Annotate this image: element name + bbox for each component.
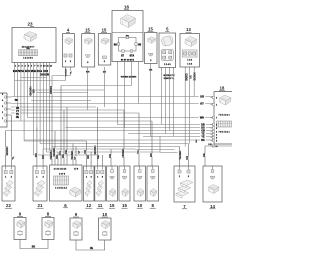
svg-text:22: 22 xyxy=(6,203,11,208)
svg-text:16: 16 xyxy=(124,5,130,10)
wires from relay 16 xyxy=(118,62,139,79)
svg-text:GY: GY xyxy=(200,102,204,106)
svg-text:RE: RE xyxy=(16,117,20,119)
svg-text:1 2 3: 1 2 3 xyxy=(187,59,193,61)
svg-text:DB/WH: DB/WH xyxy=(51,86,53,94)
svg-text:15: 15 xyxy=(102,28,107,33)
lamp 15 (d) xyxy=(107,166,118,208)
svg-text:15: 15 xyxy=(85,28,90,33)
svg-text:DB: DB xyxy=(108,154,112,158)
relay 16 xyxy=(112,5,143,62)
wire from 15 (b) xyxy=(103,72,107,74)
headlamp 10 (right pair) xyxy=(99,212,112,240)
svg-text:YL: YL xyxy=(11,156,15,160)
svg-text:RD/WH: RD/WH xyxy=(93,145,97,154)
svg-text:86 87 30 87A: 86 87 30 87A xyxy=(121,58,135,61)
ground wire right pair xyxy=(76,240,105,250)
connector 15 (b) xyxy=(98,28,111,65)
connector 13 xyxy=(180,27,200,67)
svg-text:YH: YH xyxy=(16,114,20,116)
svg-text:15: 15 xyxy=(122,203,127,208)
wires from connector 13 xyxy=(185,67,194,71)
svg-text:BK: BK xyxy=(15,99,19,102)
lamp 10 xyxy=(134,166,146,208)
svg-text:DB: DB xyxy=(64,150,68,154)
wire labels at connector 18 xyxy=(199,95,212,146)
svg-text:RE: RE xyxy=(96,155,100,159)
svg-text:VA: VA xyxy=(136,150,140,154)
svg-text:WH/BK DB/WH: WH/BK DB/WH xyxy=(121,77,137,79)
connector 4 xyxy=(62,28,74,67)
svg-text:87A: 87A xyxy=(130,54,135,57)
svg-text:10: 10 xyxy=(102,212,107,217)
connector 15 (c) xyxy=(145,27,158,64)
headlamp 9 (right) xyxy=(70,212,82,240)
svg-text:OR: OR xyxy=(185,156,189,160)
svg-text:85: 85 xyxy=(138,42,142,46)
svg-text:21: 21 xyxy=(38,203,43,208)
connector 18 xyxy=(214,86,232,144)
svg-text:RD: RD xyxy=(41,155,45,159)
svg-text:BK: BK xyxy=(201,139,205,142)
svg-text:1 1 13 14 A 2: 1 1 13 14 A 2 xyxy=(55,187,68,190)
wire colour labels under 23 xyxy=(13,69,49,77)
connector 18 pins xyxy=(211,96,219,148)
wires from connector 5 xyxy=(162,68,175,81)
headlamp 8 (left pair) xyxy=(42,212,54,240)
ground wire left pair xyxy=(20,240,48,249)
svg-text:1 2 4 5: 1 2 4 5 xyxy=(164,63,171,66)
svg-text:11: 11 xyxy=(98,203,103,208)
control unit 6 xyxy=(50,165,83,208)
relay 16 pinout xyxy=(114,34,142,62)
svg-text:WH/BK: WH/BK xyxy=(52,147,56,156)
switch 11 xyxy=(95,166,106,208)
svg-text:VT: VT xyxy=(73,156,77,160)
svg-text:RD: RD xyxy=(86,155,90,159)
svg-text:BK/RD: BK/RD xyxy=(187,73,189,81)
wire mesh verticals from top row xyxy=(15,66,195,158)
svg-text:DB: DB xyxy=(16,108,20,110)
svg-text:BK/WH: BK/WH xyxy=(195,72,197,80)
connector 23 xyxy=(12,22,56,63)
svg-text:HW/BK: HW/BK xyxy=(121,148,125,157)
left wire labels xyxy=(13,98,20,119)
wire from 15 (c) xyxy=(149,64,153,72)
wire from 15 (a) xyxy=(86,72,90,74)
svg-text:WH: WH xyxy=(34,153,38,157)
svg-text:BK: BK xyxy=(149,153,153,157)
lamp 8 xyxy=(147,166,159,208)
switch 12 xyxy=(84,166,95,208)
svg-text:10: 10 xyxy=(137,203,142,208)
wire drops to lower row xyxy=(6,86,205,167)
connector 5 xyxy=(159,27,176,68)
svg-text:86: 86 xyxy=(114,42,118,46)
svg-text:7 6 5 4 3 2 1: 7 6 5 4 3 2 1 xyxy=(218,131,230,134)
lamp unit 7 xyxy=(174,166,195,209)
svg-text:RE: RE xyxy=(90,247,94,250)
headlamp 9 (left) xyxy=(14,212,26,240)
svg-text:12: 12 xyxy=(86,203,91,208)
svg-text:WH: WH xyxy=(200,116,204,120)
svg-text:13: 13 xyxy=(186,27,191,32)
lamp unit 22 xyxy=(2,166,15,208)
svg-text:18: 18 xyxy=(220,86,225,91)
lamp 15 (e) xyxy=(119,166,130,208)
wires from connector 4 xyxy=(66,67,71,71)
svg-text:RE: RE xyxy=(202,153,206,157)
svg-text:OR: OR xyxy=(191,75,193,79)
svg-text:VT: VT xyxy=(77,150,81,154)
svg-text:OR: OR xyxy=(200,95,204,99)
svg-text:23: 23 xyxy=(27,22,33,27)
rotated wire labels above lower row xyxy=(5,68,206,160)
svg-text:BK: BK xyxy=(32,246,36,249)
svg-text:RD/WH: RD/WH xyxy=(5,146,9,155)
svg-text:15: 15 xyxy=(110,203,115,208)
lamp 14 xyxy=(203,166,222,209)
svg-text:15: 15 xyxy=(148,27,153,32)
svg-text:RD/WH: RD/WH xyxy=(65,68,67,76)
svg-text:DG/OR: DG/OR xyxy=(40,73,49,76)
connector 15 (a) xyxy=(82,28,95,67)
svg-text:WH/BK: WH/BK xyxy=(178,150,182,159)
svg-text:OR: OR xyxy=(83,150,87,154)
svg-text:1 2 3 4 5 6: 1 2 3 4 5 6 xyxy=(23,57,33,60)
connector 23 pin row xyxy=(15,63,53,68)
svg-text:2 3 11 C13 14: 2 3 11 C13 14 xyxy=(54,167,67,170)
left edge connector xyxy=(0,93,11,127)
lamp unit 21 xyxy=(33,166,47,208)
svg-text:3 C7 8: 3 C7 8 xyxy=(59,173,66,175)
wire mesh horizontal bus xyxy=(6,76,232,159)
svg-text:WH: WH xyxy=(32,89,36,93)
svg-text:L10: L10 xyxy=(208,144,211,146)
svg-text:7 6 5 4 3 2 1: 7 6 5 4 3 2 1 xyxy=(218,114,230,117)
svg-text:14: 14 xyxy=(210,204,215,209)
svg-text:BK: BK xyxy=(196,139,198,143)
svg-text:1 2 3: 1 2 3 xyxy=(187,64,193,66)
